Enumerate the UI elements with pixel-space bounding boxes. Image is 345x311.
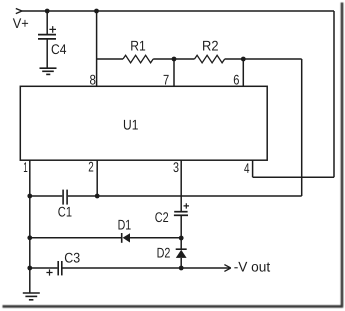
- wire output with arrow: [181, 267, 230, 269]
- svg-text:1: 1: [23, 159, 28, 175]
- wire R1 left lead: [97, 58, 123, 60]
- wire pin6 vertical: [242, 59, 244, 87]
- svg-text:7: 7: [163, 72, 169, 88]
- wire C4 top lead: [46, 11, 48, 34]
- op-amp U1: [20, 86, 267, 160]
- wire D1 left lead: [30, 237, 121, 239]
- wire pin7 vertical: [173, 59, 175, 87]
- ground pin1: [23, 293, 40, 300]
- wire D2 to output node: [180, 258, 182, 268]
- capacitor C1: [63, 190, 67, 205]
- ground C4: [40, 68, 57, 74]
- wire C1 right lead: [68, 195, 97, 197]
- capacitor C2: [174, 203, 189, 215]
- wire C2 to D1 node: [180, 216, 182, 249]
- svg-text:D1: D1: [118, 216, 132, 232]
- wire top rail: [22, 10, 334, 12]
- capacitor C4: [38, 26, 56, 39]
- svg-text:3: 3: [173, 159, 179, 175]
- resistor R1: [123, 55, 153, 63]
- svg-text:4: 4: [244, 160, 250, 176]
- node junction D1 left: [27, 235, 32, 240]
- svg-text:R2: R2: [202, 38, 219, 54]
- diode D1: [122, 233, 130, 243]
- diode D2: [176, 249, 187, 258]
- wire R1 right lead: [153, 58, 174, 60]
- node junction output: [179, 266, 184, 271]
- node junction pin2 bottom: [95, 194, 100, 199]
- node junction top C4: [45, 9, 50, 14]
- svg-text:8: 8: [90, 72, 97, 88]
- svg-text:6: 6: [233, 72, 239, 88]
- wire pin2 vertical: [96, 160, 98, 196]
- node junction C1 left: [27, 194, 32, 199]
- wire C4 bottom lead: [46, 40, 48, 69]
- wire R2 right lead: [225, 58, 243, 60]
- svg-text:D2: D2: [157, 245, 171, 261]
- node junction C3 left: [27, 266, 32, 271]
- node junction D1 right: [179, 236, 184, 241]
- svg-text:R1: R1: [130, 38, 146, 54]
- wire C3 right lead: [63, 267, 182, 269]
- output arrowhead: [224, 265, 230, 272]
- wire D1 right lead: [130, 237, 181, 239]
- svg-text:V+: V+: [13, 15, 29, 31]
- wire C3 left lead: [30, 267, 58, 269]
- wire bottom bus pin2 to right drop: [97, 195, 302, 197]
- svg-text:U1: U1: [123, 116, 139, 132]
- svg-text:C1: C1: [58, 203, 72, 219]
- svg-text:2: 2: [88, 159, 94, 175]
- wire pin4 to right edge: [253, 176, 334, 178]
- wire pin6 node to right drop: [243, 58, 301, 60]
- svg-text:C3: C3: [64, 250, 80, 266]
- node junction pin6: [241, 57, 246, 62]
- wire pin8 vertical: [96, 11, 98, 87]
- input terminal arrow: [16, 9, 22, 14]
- wire R2 left lead: [174, 58, 195, 60]
- svg-text:-V out: -V out: [234, 258, 271, 274]
- wire pin3 vertical: [180, 160, 182, 211]
- capacitor C3: [46, 261, 61, 276]
- node junction pin7: [172, 57, 177, 62]
- node junction top pin8: [94, 9, 99, 14]
- resistor R2: [195, 55, 225, 63]
- wire pin1 vertical: [29, 160, 31, 293]
- wire right drop to bottom bus: [301, 59, 303, 196]
- wire pin4 vertical: [252, 160, 254, 177]
- wire right edge vertical: [333, 11, 335, 177]
- svg-text:C4: C4: [51, 41, 67, 57]
- svg-text:C2: C2: [155, 209, 169, 225]
- wire C1 left lead: [30, 195, 63, 197]
